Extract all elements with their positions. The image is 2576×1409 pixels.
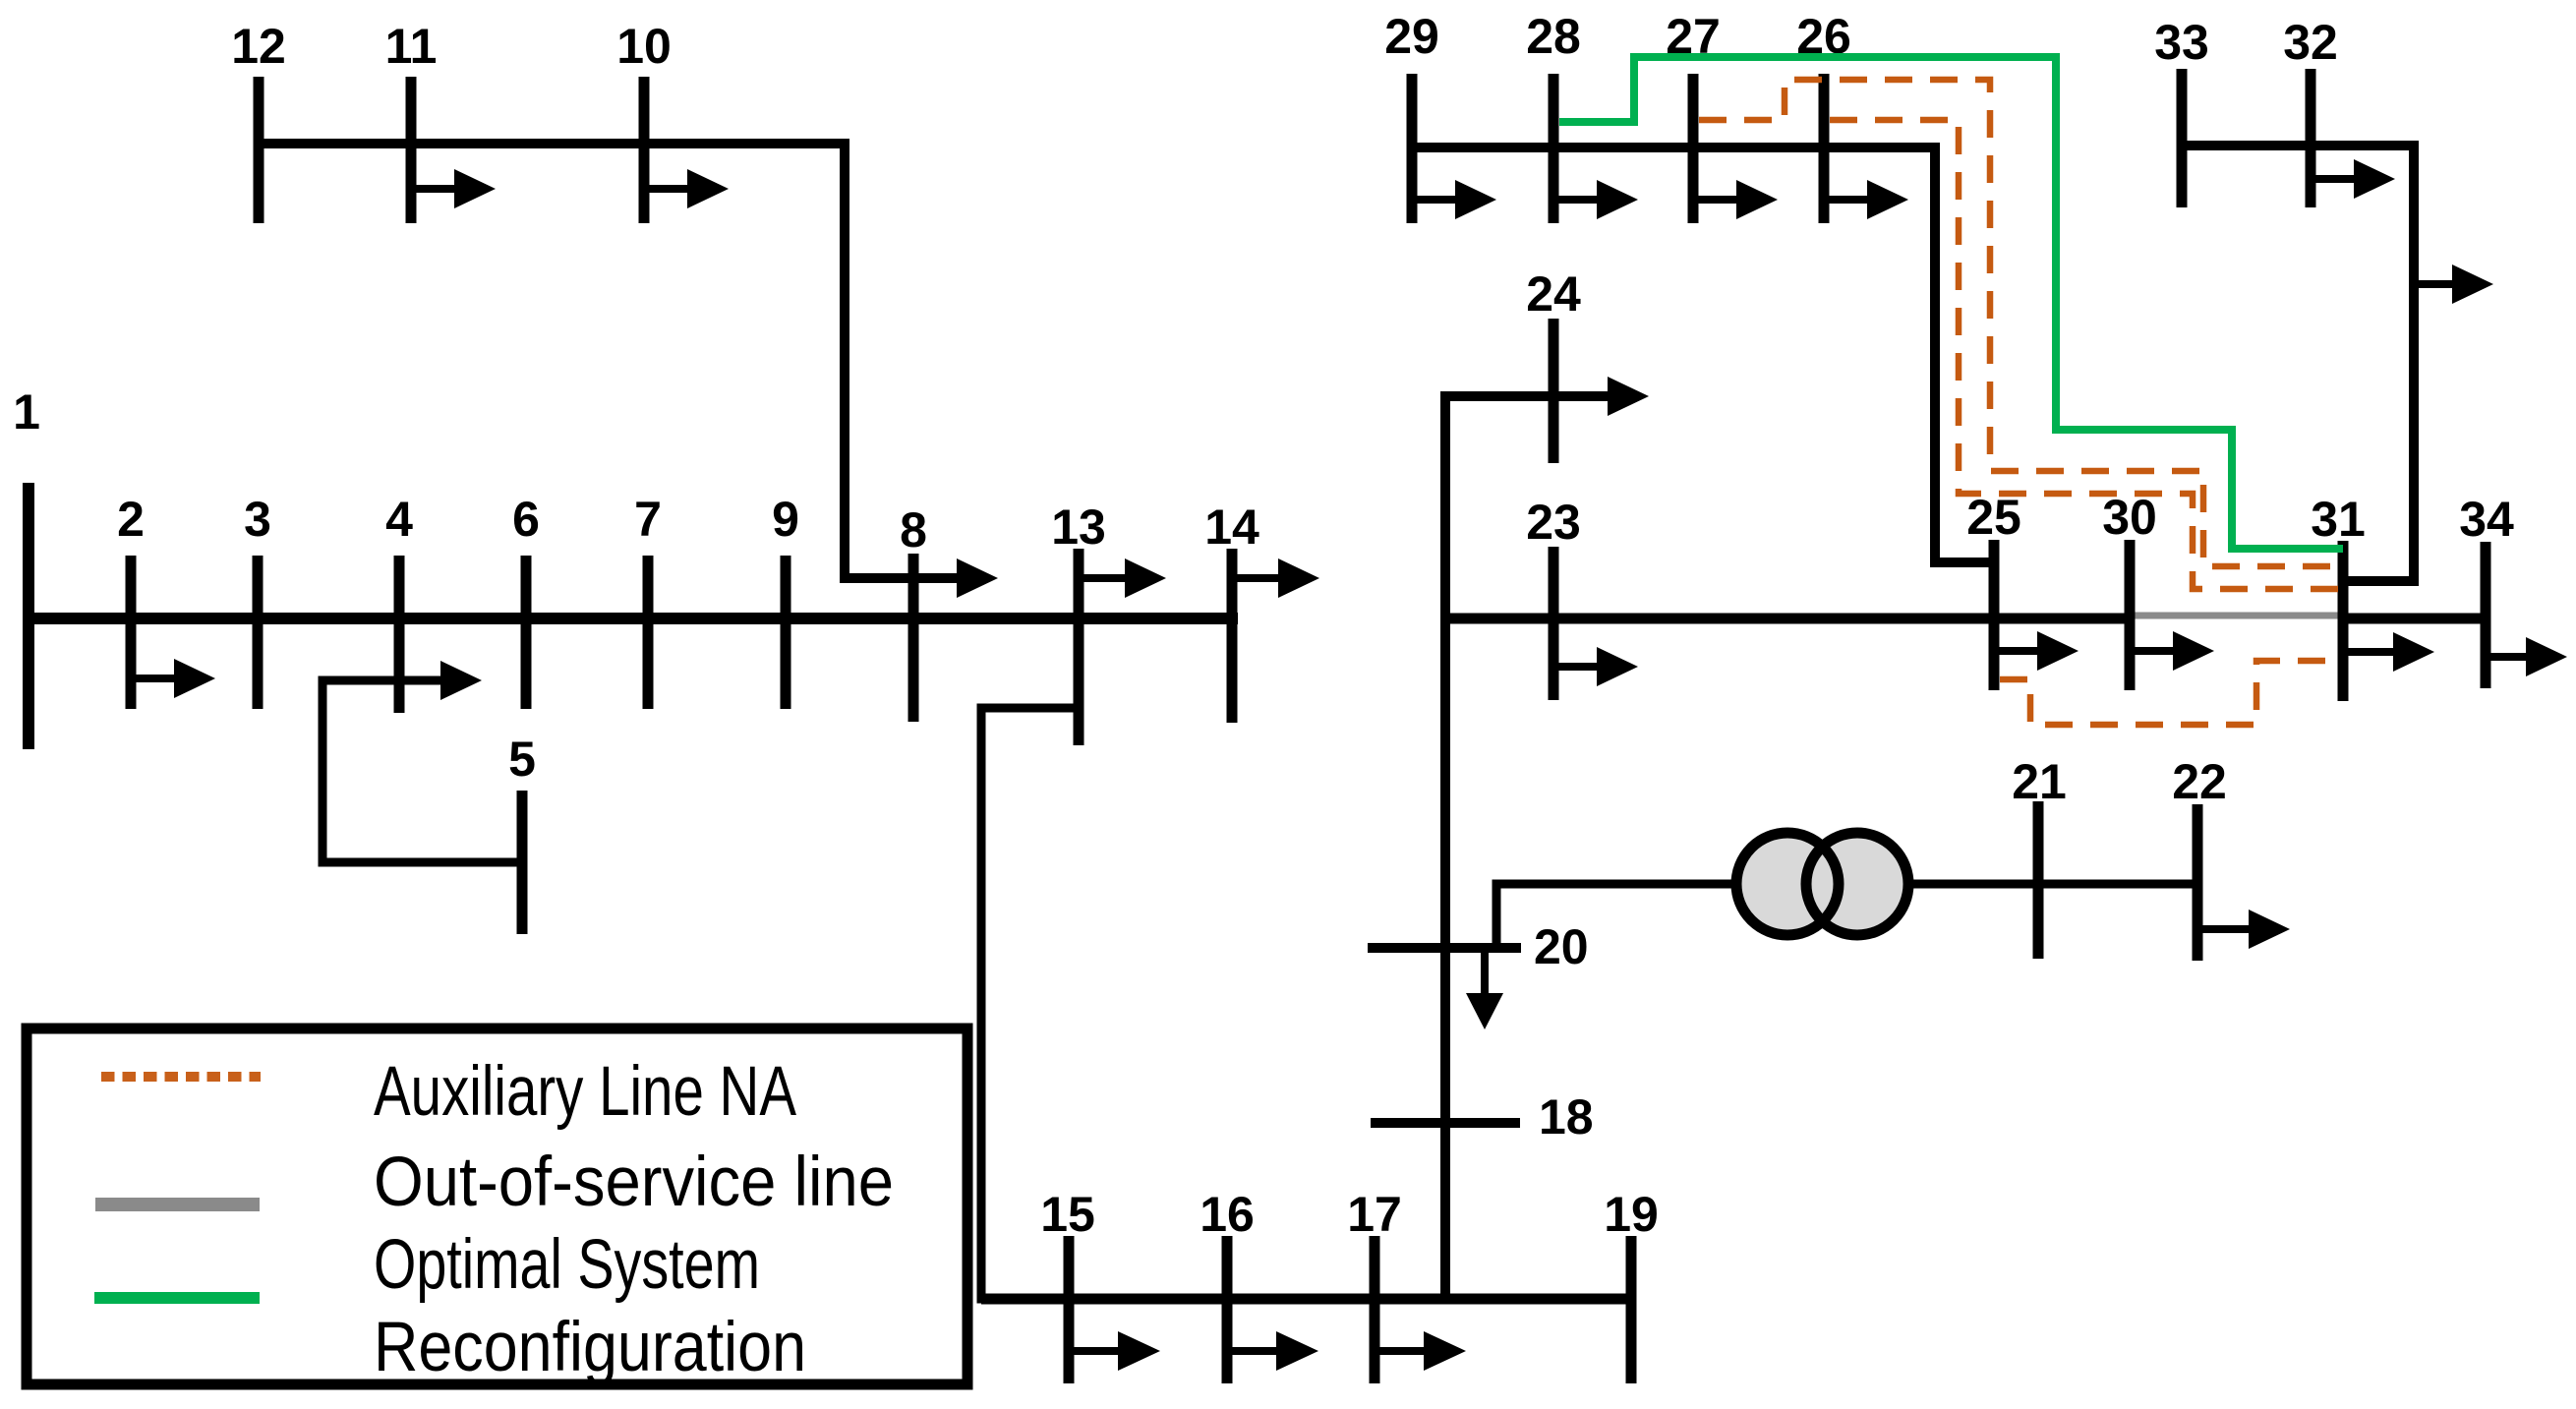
svg-text:25: 25	[1966, 490, 2021, 545]
load arrow on line 32-31	[2414, 280, 2454, 288]
svg-text:19: 19	[1604, 1187, 1659, 1242]
wire branch 4 to 5	[322, 680, 522, 862]
svg-text:8: 8	[900, 502, 927, 558]
svg-text:13: 13	[1051, 499, 1106, 555]
load arrow bus 27	[1693, 196, 1738, 204]
bus 27	[1688, 74, 1699, 223]
load arrow bus 13	[1079, 574, 1127, 582]
bus 31	[2338, 541, 2349, 701]
svg-text:Reconfiguration: Reconfiguration	[374, 1309, 806, 1386]
bus 2	[126, 556, 137, 709]
bus 7	[643, 556, 654, 709]
svg-text:Out-of-service line: Out-of-service line	[374, 1144, 894, 1221]
bus 30	[2125, 540, 2136, 690]
svg-text:5: 5	[508, 732, 536, 787]
load arrow bus 15	[1069, 1347, 1120, 1355]
svg-text:33: 33	[2154, 15, 2209, 70]
svg-text:6: 6	[512, 492, 540, 547]
auxiliary line NA 27-31 (orange dashed)	[1699, 80, 2343, 566]
load arrow bus 23	[1553, 663, 1599, 671]
legend box	[27, 1028, 967, 1384]
load arrow bus 11	[411, 185, 456, 193]
wire bottom feeder 15-16-17-19	[981, 1294, 1631, 1305]
load arrow bus 29	[1412, 196, 1457, 204]
load arrow bus 20 (down)	[1481, 948, 1489, 995]
bus 19	[1626, 1236, 1637, 1383]
svg-text:17: 17	[1347, 1187, 1402, 1242]
optimal reconfiguration line 28-31 (green)	[1559, 57, 2343, 549]
bus 15	[1064, 1236, 1075, 1383]
load arrow bus 22	[2197, 925, 2251, 933]
bus 18	[1371, 1118, 1520, 1128]
load arrow bus 31	[2343, 648, 2395, 656]
bus 32	[2306, 69, 2316, 207]
load arrow bus 32	[2311, 175, 2356, 183]
bus 9	[781, 556, 791, 709]
wire transformer branch 20-21-22	[1496, 884, 1738, 948]
bus 22	[2193, 804, 2203, 961]
load arrow bus 28	[1553, 196, 1599, 204]
bus 17	[1370, 1236, 1380, 1383]
svg-text:15: 15	[1040, 1187, 1095, 1242]
bus 25	[1989, 540, 2000, 690]
wire feeder 29-28-27-26 and drop to bus 25	[1412, 147, 1994, 562]
bus 11	[406, 77, 417, 223]
bus 13	[1074, 549, 1084, 745]
svg-text:1: 1	[13, 384, 40, 440]
bus 14	[1227, 549, 1238, 723]
load arrow bus 17	[1375, 1347, 1426, 1355]
wire transformer to bus 22	[1908, 880, 2197, 889]
bus 1	[23, 483, 34, 749]
svg-text:31: 31	[2311, 492, 2366, 547]
load arrow bus 14	[1232, 574, 1280, 582]
bus 28	[1549, 74, 1559, 223]
load arrow bus 26	[1824, 196, 1869, 204]
wire main right feeder from trunk to bus 30	[1445, 614, 2132, 624]
wire main left feeder 1-14	[29, 613, 1238, 624]
load arrow bus 8	[957, 558, 998, 598]
svg-text:28: 28	[1526, 9, 1581, 64]
bus 34	[2481, 542, 2491, 688]
transformer 20-21	[1736, 833, 1839, 935]
bus 23	[1549, 547, 1559, 700]
bus 6	[521, 556, 532, 709]
svg-text:18: 18	[1539, 1089, 1594, 1145]
svg-text:12: 12	[231, 19, 286, 74]
bus 8	[908, 554, 919, 722]
auxiliary line NA 25-31 (orange dashed)	[2000, 661, 2343, 725]
load arrow bus 16	[1227, 1347, 1278, 1355]
svg-text:11: 11	[385, 19, 438, 74]
svg-text:32: 32	[2283, 15, 2338, 70]
bus 24	[1549, 319, 1559, 463]
svg-text:4: 4	[385, 492, 413, 547]
load arrow bus 34	[2486, 653, 2528, 661]
legend optimal reconfiguration swatch	[94, 1292, 260, 1304]
wire out-of-service line 30-31 (gray)	[2132, 613, 2343, 619]
svg-text:20: 20	[1534, 919, 1589, 974]
svg-text:24: 24	[1526, 266, 1581, 322]
svg-text:Optimal System: Optimal System	[374, 1226, 760, 1304]
auxiliary line NA 26-31 (orange dashed)	[1830, 120, 2343, 589]
bus 29	[1407, 74, 1418, 223]
wire trunk 24-20-18 to bottom feeder	[1445, 396, 1610, 1299]
svg-text:34: 34	[2459, 492, 2514, 547]
wire main right feeder 31-34	[2343, 614, 2486, 624]
load arrow bus 25	[1994, 647, 2039, 655]
load arrow bus 30	[2130, 647, 2175, 655]
legend auxiliary line swatch	[101, 1072, 261, 1082]
wire feeder 33-32 and drop to bus 31	[2182, 146, 2414, 581]
load arrow bus 2	[131, 675, 176, 682]
svg-text:7: 7	[634, 492, 662, 547]
wire feeder 12-11-10 and drop to bus 8	[259, 144, 959, 578]
bus 3	[253, 556, 263, 709]
svg-text:14: 14	[1204, 499, 1259, 555]
load arrow bus 24	[1608, 377, 1649, 416]
bus 33	[2177, 69, 2188, 207]
bus 26	[1819, 74, 1830, 223]
svg-text:21: 21	[2012, 754, 2067, 809]
load arrow bus 4	[440, 661, 482, 700]
svg-text:29: 29	[1384, 9, 1439, 64]
wire branch bus 13 down to bottom feeder	[981, 708, 1631, 1299]
bus 5	[517, 791, 528, 934]
svg-text:16: 16	[1200, 1187, 1255, 1242]
svg-text:9: 9	[772, 492, 799, 547]
svg-text:2: 2	[117, 492, 145, 547]
bus 16	[1222, 1236, 1233, 1383]
bus 21	[2033, 801, 2044, 959]
load arrow bus 10	[644, 185, 689, 193]
bus 10	[639, 77, 650, 223]
svg-text:10: 10	[616, 19, 672, 74]
bus 20	[1368, 943, 1521, 953]
svg-text:22: 22	[2172, 754, 2227, 809]
svg-text:3: 3	[244, 492, 271, 547]
legend out-of-service swatch	[95, 1198, 260, 1211]
bus 4	[394, 556, 405, 713]
svg-text:30: 30	[2102, 490, 2157, 545]
svg-text:Auxiliary Line NA: Auxiliary Line NA	[374, 1053, 797, 1131]
svg-text:23: 23	[1526, 495, 1581, 550]
bus 12	[254, 77, 264, 223]
